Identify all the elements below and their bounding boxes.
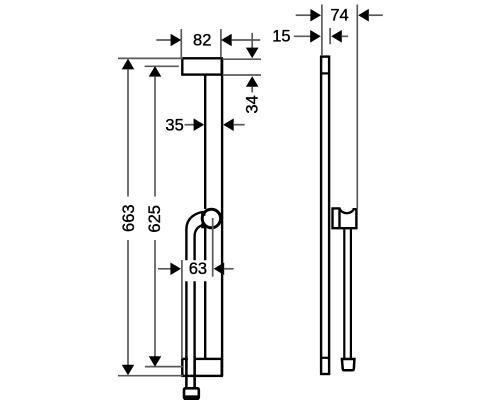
dim 82: extension line right — [220, 29, 222, 58]
dim 34: upper leader — [251, 33, 253, 48]
hose inner wall curve+upper segment — [195, 225, 204, 260]
dim 74: front extension line — [356, 5, 358, 209]
dim 15: left tail — [294, 35, 311, 37]
side hose front wall — [350, 228, 352, 359]
dim 74: wall extension line — [321, 5, 323, 57]
wire: bar right edge full — [221, 58, 223, 376]
dim 74: right arrowhead — [358, 9, 369, 22]
wire: bar left edge mid segment — [204, 228, 206, 261]
hose outer wall lower segment — [185, 281, 187, 388]
dim 82: left tail — [156, 39, 172, 41]
dim 663: top extension — [118, 57, 183, 59]
hose outlet nut (front) — [184, 388, 199, 399]
dim 34: up arrowhead — [246, 76, 259, 87]
svg-text:35: 35 — [165, 116, 183, 134]
dim 15: right tail — [341, 35, 348, 37]
side bar top joint tick — [321, 72, 329, 74]
dim 82: right arrowhead — [221, 34, 232, 47]
dim 74: left tail — [296, 14, 311, 16]
dim 35: right tail — [233, 124, 244, 126]
dim 625: top extension — [145, 65, 179, 67]
dim 663: down arrowhead — [122, 365, 135, 376]
hose inner wall lower segment — [193, 281, 195, 388]
dim 63: right arrowhead — [214, 263, 225, 276]
dim 663: line lower — [127, 240, 129, 365]
dim 663: line upper — [127, 69, 129, 197]
dim 625: line upper — [154, 76, 156, 196]
dim 63: right tail — [224, 268, 234, 270]
svg-text:663: 663 — [120, 204, 138, 232]
hose wall crossing bottom bracket left — [185, 356, 187, 388]
dim 625: down arrowhead — [149, 356, 162, 367]
top wall bracket — [182, 58, 221, 74]
dim 34: lower leader — [251, 87, 253, 93]
side hose back wall — [343, 228, 345, 359]
wire: bar left edge lower segment — [204, 281, 206, 359]
hose wall crossing bottom bracket right — [193, 356, 195, 388]
dim 34: extension line bottom — [223, 74, 262, 76]
svg-text:82: 82 — [193, 31, 211, 49]
wire: bar left edge upper segment — [204, 74, 206, 209]
bracket top edge gap at hose — [188, 357, 194, 360]
dim 82: left arrowhead — [171, 34, 182, 47]
side holder body — [333, 208, 357, 228]
dim 63: centre extension line from ring — [212, 218, 214, 277]
dim 625: up arrowhead — [149, 66, 162, 77]
svg-text:63: 63 — [189, 260, 207, 278]
svg-text:625: 625 — [146, 205, 164, 233]
svg-text:74: 74 — [330, 7, 348, 25]
dim 625: line lower — [154, 240, 156, 357]
dim 663: up arrowhead — [122, 59, 135, 70]
dim 625: bottom extension — [145, 366, 183, 368]
svg-text:34: 34 — [243, 95, 261, 113]
slider clamp tab upper — [201, 211, 205, 216]
slider clamp tab lower — [201, 223, 205, 228]
dim 15: right arrowhead — [331, 30, 342, 43]
slider holder ring — [202, 209, 220, 227]
bottom wall bracket — [182, 359, 221, 376]
dim 34: down arrowhead — [246, 48, 259, 59]
nut solid bottom — [184, 395, 199, 399]
dim 63: left arrowhead — [170, 263, 181, 276]
dim 15: left arrowhead — [310, 30, 321, 43]
dim 74: left arrowhead — [310, 9, 321, 22]
dim 35: left arrowhead — [194, 118, 205, 131]
dim 35: right arrowhead — [223, 118, 234, 131]
svg-text:15: 15 — [272, 28, 290, 46]
dim 663: bottom extension — [118, 375, 183, 377]
dim 63: left extension line — [181, 260, 183, 359]
dim 82: extension line left — [180, 29, 182, 58]
dim 35: left tail — [185, 124, 195, 126]
dim 15: bar front extension line — [329, 28, 331, 44]
dim 63: left tail — [158, 268, 171, 270]
side hose nut — [342, 359, 355, 370]
hose outer wall curve+upper segment — [186, 212, 203, 260]
dim 82: right tail — [231, 39, 260, 41]
side bar outline — [321, 57, 329, 374]
dim 74: right tail — [368, 14, 382, 16]
dim 34: extension line top — [223, 58, 262, 60]
side holder clamp line — [338, 208, 340, 228]
side bar bottom joint tick — [321, 357, 329, 359]
